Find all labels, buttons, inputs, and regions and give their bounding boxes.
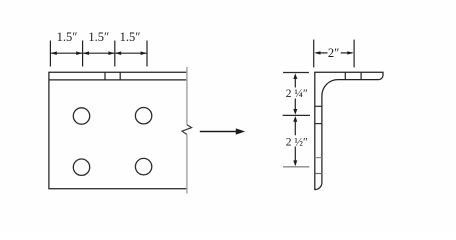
- plate front view outline: [49, 72, 187, 189]
- dim extension line 4: [146, 41, 148, 67]
- bracket leg hole tick 2: [315, 123, 322, 125]
- dim line segment 3: [115, 52, 146, 54]
- bracket leg hole tick 4: [315, 173, 322, 175]
- svg-text:1.5″: 1.5″: [88, 30, 109, 44]
- flange hole tick left: [104, 72, 106, 80]
- left dim shaft seg + arrow down (to middle tick): [294, 99, 296, 111]
- 2in ext line left: [313, 40, 315, 68]
- hole top-left: [73, 108, 89, 124]
- flange hole tick right: [119, 72, 121, 80]
- break line zigzag: [182, 125, 192, 135]
- hole top-right: [135, 108, 151, 124]
- plate top flange band line: [49, 79, 187, 81]
- svg-text:2 ¼″: 2 ¼″: [286, 88, 308, 100]
- svg-text:2 ½″: 2 ½″: [286, 136, 308, 148]
- 2in dim line left part: [316, 52, 328, 54]
- left dim ext tick middle: [283, 114, 310, 116]
- svg-text:1.5″: 1.5″: [57, 30, 78, 44]
- left dim ext tick bottom: [283, 166, 309, 168]
- bracket leg hole tick 3: [315, 157, 322, 159]
- 2in dim line right part: [341, 52, 353, 54]
- view direction arrow: [200, 131, 237, 133]
- left dim ext tick top: [283, 72, 309, 74]
- dim extension line 2: [82, 41, 84, 67]
- svg-text:2″: 2″: [328, 46, 339, 60]
- hole bottom-left: [73, 159, 89, 175]
- dim line segment 2: [83, 52, 114, 54]
- bracket top leg tick 2: [360, 72, 362, 79]
- arrowheads top dims: [51, 51, 57, 55]
- break line lower segment: [186, 134, 188, 193]
- dim line segment 1: [51, 52, 82, 54]
- break line upper segment: [186, 67, 188, 125]
- dim extension line 3: [114, 41, 116, 67]
- svg-text:1.5″: 1.5″: [120, 30, 141, 44]
- bracket top leg tick 1: [344, 72, 346, 79]
- left dim arrow up (top): [293, 73, 297, 79]
- left dim shaft seg + arrow down (to bottom tick): [294, 147, 296, 162]
- bracket side view outline: [315, 72, 383, 189]
- bracket leg hole tick 1: [315, 105, 322, 107]
- hole bottom-right: [135, 158, 151, 174]
- 2in ext line right: [353, 40, 355, 68]
- left dim arrow up (below middle): [293, 116, 297, 122]
- dim extension line 1: [49, 41, 51, 67]
